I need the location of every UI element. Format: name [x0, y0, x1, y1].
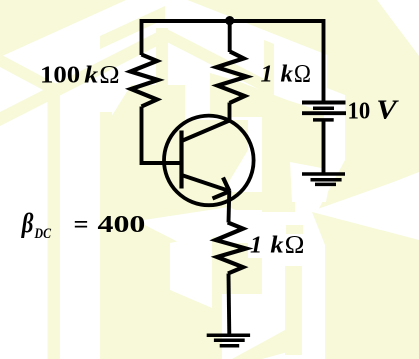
resistor R1 100 kOhm zigzag	[131, 55, 159, 107]
svg-text:Ω: Ω	[99, 62, 119, 89]
wire: collector branch from top rail to R2	[228, 21, 232, 52]
wire: base wire from R1 bottom to base bar	[142, 107, 182, 164]
wire: emitter lead from Q1 to R3	[227, 191, 232, 222]
svg-text:k: k	[84, 63, 98, 89]
wire: collector lead from R2 to transistor	[228, 103, 232, 122]
svg-text:10: 10	[348, 98, 371, 124]
svg-text:k: k	[270, 232, 283, 258]
ground (battery)	[302, 174, 345, 184]
svg-text:400: 400	[98, 212, 146, 238]
value label 1 kOhm (collector)	[261, 61, 312, 88]
label beta_DC = 400	[21, 208, 146, 242]
resistor R3 1 kOhm emitter zigzag	[216, 222, 246, 273]
transistor Q1 collector diagonal	[182, 121, 230, 142]
svg-text:DC: DC	[34, 226, 52, 242]
svg-text:V: V	[376, 94, 399, 124]
svg-text:Ω: Ω	[285, 231, 305, 258]
value label 10 V	[348, 94, 400, 124]
transistor Q1 circle	[164, 116, 254, 206]
wire: battery - to ground	[322, 120, 326, 174]
svg-text:Ω: Ω	[294, 61, 311, 88]
node: junction dot at top rail	[225, 16, 234, 25]
svg-text:1: 1	[261, 62, 273, 88]
transistor Q1 emitter diagonal	[182, 175, 230, 191]
ground (emitter)	[207, 335, 250, 345]
battery V1 plates	[302, 103, 346, 120]
value label 1 kOhm (emitter)	[250, 231, 304, 258]
value label 100 kOhm	[40, 62, 120, 89]
svg-text:β: β	[21, 208, 34, 238]
svg-text:100: 100	[40, 63, 80, 89]
svg-text:1: 1	[250, 232, 262, 258]
svg-text:k: k	[281, 62, 293, 88]
wire: R3 bottom to ground	[227, 274, 232, 335]
transistor Q1 emitter arrowhead	[213, 178, 230, 199]
transistor Q1 base bar	[179, 131, 183, 189]
resistor R2 1 kOhm collector zigzag	[217, 52, 247, 104]
svg-text:=: =	[74, 212, 89, 238]
wire: top rail from R1 top to battery +	[142, 21, 324, 101]
